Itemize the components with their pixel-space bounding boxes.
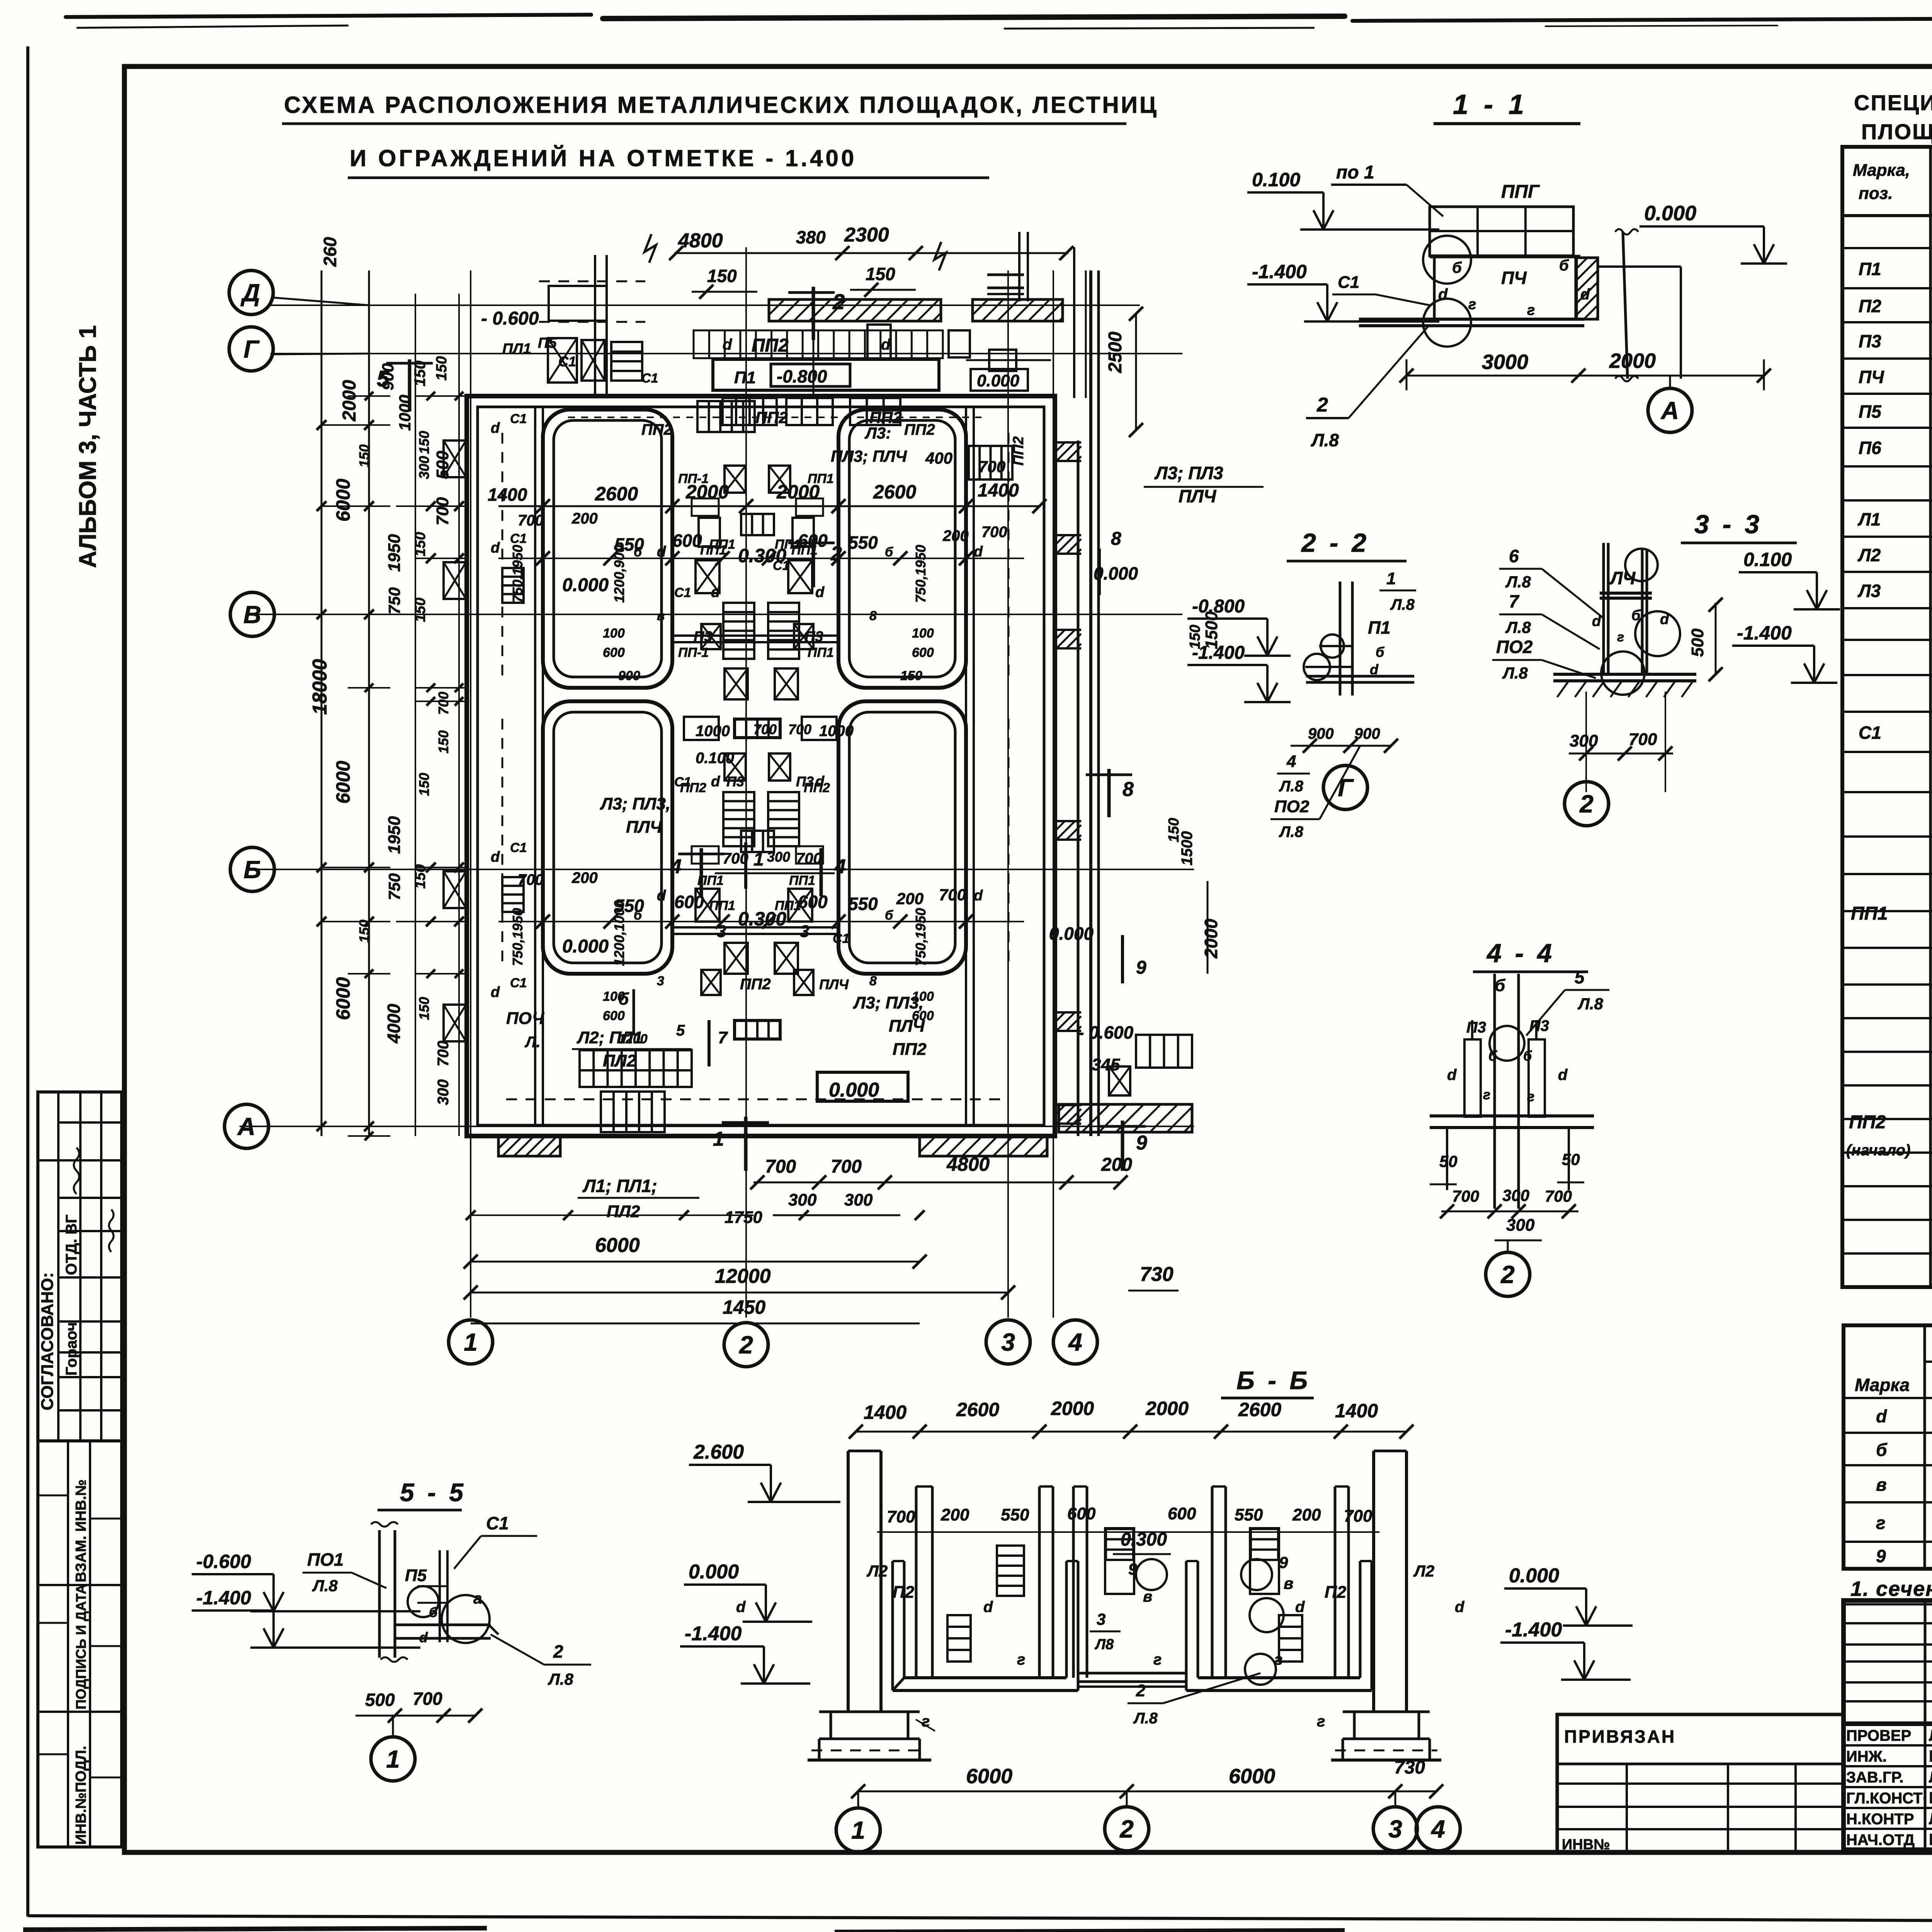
svg-text:ПП2: ПП2 (893, 1040, 927, 1059)
svg-text:700: 700 (1452, 1187, 1479, 1205)
spec row L2 (1857, 543, 1932, 570)
right 0.000 box (971, 369, 1028, 391)
axis circle D (229, 270, 273, 315)
spec row P6 (1859, 435, 1932, 462)
svg-text:4: 4 (1430, 1815, 1445, 1843)
bottom right railing boxes (1136, 1035, 1192, 1068)
svg-text:-1.400: -1.400 (685, 1622, 742, 1645)
svg-text:600: 600 (912, 1009, 934, 1023)
svg-text:Б - Б: Б - Б (1236, 1366, 1311, 1395)
svg-text:Л1; ПЛ1;: Л1; ПЛ1; (582, 1176, 657, 1196)
svg-text:0.100: 0.100 (1252, 169, 1300, 190)
svg-text:б: б (1376, 644, 1385, 660)
svg-text:ПРОВЕР: ПРОВЕР (1846, 1727, 1911, 1744)
svg-text:500: 500 (433, 451, 452, 479)
B-B tank U bottoms (904, 1676, 1066, 1679)
svg-text:П5: П5 (405, 1566, 427, 1585)
spec row P1 (1859, 259, 1932, 280)
svg-text:900: 900 (618, 668, 640, 683)
svg-text:750,1950: 750,1950 (913, 545, 929, 603)
svg-text:С1: С1 (674, 585, 691, 600)
svg-text:700: 700 (435, 692, 451, 715)
svg-text:2600: 2600 (956, 1399, 999, 1420)
svg-text:700: 700 (518, 871, 544, 888)
svg-text:в: в (1143, 1588, 1152, 1605)
outer sheet border left (26, 46, 29, 1917)
svg-text:550: 550 (848, 532, 878, 553)
svg-text:С1: С1 (1859, 723, 1881, 743)
svg-text:750: 750 (385, 873, 403, 900)
svg-text:С1: С1 (641, 371, 658, 386)
svg-text:в: в (1876, 1475, 1887, 1495)
svg-text:1 - 1: 1 - 1 (1453, 89, 1528, 120)
svg-text:2: 2 (1119, 1815, 1134, 1843)
svg-text:ПЛОЩАДОК, ЛЕСТНИЦ И ОГРАЖДЕН: ПЛОЩАДОК, ЛЕСТНИЦ И ОГРАЖДЕНИЙ (НАЧАЛО) (1861, 119, 1932, 144)
svg-text:750: 750 (385, 587, 403, 614)
svg-text:(начало): (начало) (1846, 1142, 1910, 1159)
plan: witness line extensions left (396, 505, 415, 507)
svg-text:730: 730 (1394, 1757, 1425, 1778)
svg-text:4: 4 (1068, 1328, 1082, 1356)
svg-text:ПП-1: ПП-1 (678, 471, 709, 486)
plan: vertical axis lines (470, 270, 471, 1318)
svg-text:3: 3 (1001, 1328, 1015, 1356)
svg-text:9: 9 (1876, 1546, 1886, 1566)
axis circle V (230, 592, 274, 636)
svg-text:б: б (429, 1604, 438, 1620)
svg-text:ПЛ2: ПЛ2 (603, 1051, 636, 1070)
svg-text:НАЧ.ОТД: НАЧ.ОТД (1846, 1832, 1915, 1849)
svg-text:700: 700 (433, 497, 452, 526)
svg-text:в: в (657, 609, 665, 623)
svg-text:С1: С1 (773, 558, 789, 573)
svg-text:50: 50 (1562, 1150, 1580, 1168)
section 3-3 axis circle 2 (1565, 782, 1609, 826)
section 1-1 dims (1406, 375, 1764, 377)
svg-text:6000: 6000 (966, 1765, 1012, 1788)
tank T3 (543, 701, 672, 974)
svg-text:Л.8: Л.8 (1279, 778, 1304, 795)
svg-text:300: 300 (1502, 1186, 1529, 1204)
svg-text:-1.400: -1.400 (1192, 643, 1245, 663)
svg-text:Л.8: Л.8 (1311, 430, 1339, 450)
B-B right footing (1343, 1711, 1430, 1713)
svg-text:ПЧ: ПЧ (1859, 367, 1884, 387)
plan: break marks top (645, 234, 656, 263)
svg-text:1: 1 (713, 1128, 724, 1150)
svg-text:б: б (1559, 257, 1569, 274)
svg-text:d: d (983, 1599, 993, 1616)
svg-text:Г: Г (1338, 774, 1354, 801)
svg-text:П1: П1 (734, 368, 756, 387)
svg-text:550: 550 (1001, 1505, 1029, 1524)
svg-text:150: 150 (412, 532, 429, 556)
svg-text:С1: С1 (510, 840, 527, 855)
svg-text:- 0.600: - 0.600 (1078, 1022, 1134, 1043)
axis circle G (229, 327, 273, 371)
svg-text:600: 600 (912, 645, 934, 660)
svg-text:г: г (1527, 302, 1535, 318)
svg-text:100: 100 (603, 989, 625, 1004)
spec table grid (1842, 147, 1932, 1287)
section 3-3 drawing (1602, 543, 1605, 674)
svg-text:2.600: 2.600 (693, 1441, 744, 1463)
svg-text:ПП1: ПП1 (775, 898, 801, 913)
svg-text:Л.8: Л.8 (1390, 596, 1415, 613)
svg-text:d: d (491, 420, 500, 436)
B-B central platform (1078, 1672, 1186, 1675)
svg-text:2000: 2000 (1145, 1398, 1189, 1419)
svg-text:2000: 2000 (339, 380, 360, 422)
svg-text:А: А (1660, 396, 1679, 424)
svg-text:9: 9 (1136, 957, 1146, 978)
svg-text:г: г (1274, 1651, 1282, 1668)
svg-text:8: 8 (869, 974, 877, 988)
svg-text:380: 380 (796, 227, 826, 247)
svg-text:С1: С1 (510, 976, 527, 990)
title block frame (1844, 1600, 1932, 1850)
svg-text:ПП1: ПП1 (775, 537, 801, 552)
svg-text:ЛЕВИНА: ЛЕВИНА (1929, 1810, 1932, 1828)
svg-text:П5: П5 (1859, 401, 1882, 422)
B-B small stairs left (997, 1546, 1024, 1596)
svg-text:б: б (885, 908, 893, 923)
axis circle A (224, 1104, 269, 1148)
svg-text:5 - 5: 5 - 5 (400, 1478, 466, 1507)
svg-text:2600: 2600 (1238, 1399, 1281, 1420)
plan axis circle 3 (986, 1320, 1030, 1364)
svg-text:d: d (711, 584, 720, 600)
svg-text:а: а (473, 1590, 482, 1607)
svg-text:d: d (1295, 1599, 1305, 1616)
svg-text:2000: 2000 (1201, 918, 1221, 959)
top hatched strips (769, 299, 941, 321)
svg-text:1400: 1400 (1335, 1400, 1378, 1422)
svg-text:Л2: Л2 (1413, 1562, 1434, 1580)
svg-text:3: 3 (800, 922, 809, 941)
svg-text:2: 2 (739, 1331, 753, 1359)
svg-text:2: 2 (1500, 1260, 1515, 1288)
svg-text:КАЛМЫКОВА: КАЛМЫКОВА (1929, 1747, 1932, 1765)
svg-text:г: г (1617, 630, 1624, 645)
svg-text:2: 2 (1579, 790, 1594, 818)
svg-text:700: 700 (413, 1689, 442, 1709)
B-B tank walls and columns (915, 1486, 918, 1678)
svg-text:0.000: 0.000 (1644, 202, 1696, 225)
svg-text:Л2: Л2 (1857, 545, 1881, 565)
svg-text:4: 4 (1286, 752, 1296, 771)
svg-text:-0.800: -0.800 (1192, 596, 1245, 617)
section marker 7 bottom (707, 1020, 711, 1066)
svg-text:3: 3 (657, 974, 664, 988)
svg-text:Л3; ПЛ3,: Л3; ПЛ3, (600, 794, 670, 813)
svg-text:1950: 1950 (385, 816, 404, 854)
svg-text:П1: П1 (1368, 617, 1391, 638)
svg-text:400: 400 (925, 449, 952, 467)
left margin upper table (approvals) (38, 1092, 122, 1441)
svg-text:6000: 6000 (332, 761, 354, 804)
svg-text:300: 300 (416, 456, 432, 479)
svg-text:АЛЬБОМ 3, ЧАСТЬ 1: АЛЬБОМ 3, ЧАСТЬ 1 (75, 325, 101, 568)
B-B axis circles (836, 1808, 880, 1852)
svg-text:1: 1 (386, 1745, 400, 1773)
svg-text:1200,900: 1200,900 (611, 545, 627, 603)
svg-text:d: d (1876, 1406, 1887, 1426)
plan axis circle 4 (1053, 1320, 1097, 1364)
svg-text:5: 5 (676, 1022, 685, 1039)
svg-text:СПЕЦИФИКАЦИЯ К СХЕМЕ РАСПОЛОЖЕ: СПЕЦИФИКАЦИЯ К СХЕМЕ РАСПОЛОЖЕНИЯ МЕТАЛЛ… (1854, 90, 1932, 115)
plan: top wall spur verticals (594, 255, 596, 398)
plan: top-right shaft (987, 274, 1024, 276)
svg-text:Л8: Л8 (1094, 1636, 1114, 1653)
svg-text:150: 150 (434, 356, 450, 381)
plan: top axis extension lines (470, 270, 471, 396)
svg-text:ПО1: ПО1 (307, 1549, 344, 1570)
spec row P3 (1859, 331, 1932, 352)
svg-text:d: d (723, 336, 733, 353)
svg-text:П2: П2 (893, 1583, 915, 1602)
plan: left margin tick grid (415, 505, 467, 507)
svg-text:150: 150 (416, 997, 432, 1020)
svg-text:г: г (1153, 1651, 1162, 1668)
plan center: mid stair cluster upper (696, 560, 719, 593)
section marker 4 left (700, 848, 703, 896)
svg-text:0.000: 0.000 (562, 936, 609, 957)
scan edge band bottom (23, 1928, 487, 1930)
svg-text:4800: 4800 (946, 1153, 990, 1175)
svg-text:d: d (657, 544, 666, 560)
B-B tank outer walls (903, 1561, 906, 1678)
svg-text:2600: 2600 (873, 481, 916, 503)
svg-text:d: d (491, 984, 500, 1000)
svg-text:600: 600 (603, 645, 625, 660)
5 marker top-left (408, 359, 412, 412)
svg-text:150: 150 (412, 598, 429, 622)
svg-text:3: 3 (1097, 1610, 1105, 1628)
left wall stair details (502, 568, 524, 603)
svg-text:П5: П5 (538, 335, 557, 351)
svg-text:3000: 3000 (1482, 350, 1528, 374)
svg-text:0.100: 0.100 (1743, 549, 1792, 570)
svg-text:6000: 6000 (595, 1234, 640, 1257)
svg-text:-1.400: -1.400 (1737, 622, 1792, 644)
bottom-left big staircase (580, 1050, 692, 1087)
plan axis circle 2 (724, 1323, 768, 1367)
svg-text:ПЧ: ПЧ (1501, 268, 1527, 288)
spec row P2 (1859, 296, 1932, 317)
svg-text:300: 300 (1506, 1216, 1535, 1235)
right wall hatch stubs (1055, 442, 1081, 461)
svg-text:Л.8: Л.8 (548, 1670, 574, 1688)
svg-text:3: 3 (1388, 1815, 1402, 1843)
svg-text:150: 150 (707, 266, 737, 286)
svg-text:б: б (634, 908, 642, 923)
svg-text:ПП2: ПП2 (804, 781, 830, 795)
svg-text:ПРОНИН: ПРОНИН (1929, 1789, 1932, 1807)
svg-text:ПП2: ПП2 (1010, 436, 1027, 466)
svg-text:1750: 1750 (724, 1208, 762, 1227)
section 3-3 levels (1739, 549, 1840, 609)
svg-text:d: d (974, 888, 983, 904)
axis circle B (230, 847, 274, 891)
left margin lower table (inv no) (38, 1441, 122, 1847)
svg-text:d: d (1370, 662, 1379, 677)
B-B left footing (819, 1711, 920, 1713)
svg-text:d: d (815, 584, 825, 600)
svg-text:3 - 3: 3 - 3 (1694, 510, 1762, 539)
svg-text:d: d (711, 774, 720, 790)
svg-text:ПЛ2: ПЛ2 (607, 1202, 640, 1221)
outer sheet border bottom (28, 1916, 1723, 1920)
svg-text:150: 150 (435, 730, 451, 753)
plan: long horizontal dim line mid (498, 558, 1024, 559)
central stairs (723, 603, 754, 659)
svg-text:7: 7 (1509, 591, 1520, 611)
svg-text:Н.КОНТР: Н.КОНТР (1846, 1811, 1914, 1828)
svg-text:ПП1: ПП1 (789, 873, 815, 888)
svg-text:1000: 1000 (819, 723, 854, 740)
svg-text:1: 1 (1386, 569, 1396, 588)
svg-text:Гораоч: Гораоч (63, 1322, 80, 1376)
B-B right column (1372, 1451, 1375, 1712)
svg-text:4000: 4000 (384, 1003, 404, 1044)
svg-text:18000: 18000 (309, 659, 331, 715)
svg-text:d: d (1447, 1066, 1457, 1083)
svg-text:по 1: по 1 (1336, 162, 1374, 183)
svg-text:Д: Д (240, 279, 260, 306)
svg-text:ПП1: ПП1 (1851, 903, 1888, 924)
svg-text:d: d (657, 888, 666, 904)
svg-text:750,1950: 750,1950 (510, 545, 526, 603)
svg-text:700: 700 (765, 1156, 796, 1177)
B-B levels (689, 1441, 840, 1502)
svg-text:б: б (1876, 1440, 1888, 1460)
railing boxes below platform (723, 398, 777, 425)
svg-text:0.000: 0.000 (562, 575, 609, 595)
svg-text:600: 600 (674, 892, 704, 912)
left side dim columns (321, 270, 323, 1136)
svg-text:d: d (1660, 611, 1669, 628)
svg-text:1450: 1450 (723, 1296, 765, 1318)
svg-text:- 0.600: - 0.600 (481, 308, 539, 329)
scan edge band top (66, 15, 1932, 29)
svg-text:150: 150 (356, 444, 372, 468)
svg-text:Марка,: Марка, (1853, 161, 1910, 180)
svg-text:200: 200 (896, 889, 923, 908)
svg-text:ПОДПИСЬ И ДАТА: ПОДПИСЬ И ДАТА (73, 1584, 89, 1709)
svg-text:Л.8: Л.8 (1505, 618, 1531, 636)
svg-text:2300: 2300 (844, 224, 889, 246)
svg-text:100: 100 (912, 989, 934, 1004)
section 2-2 dims (1291, 745, 1391, 747)
svg-text:С1: С1 (1338, 273, 1359, 292)
svg-text:ПП1: ПП1 (709, 898, 735, 913)
svg-text:600: 600 (798, 531, 828, 551)
svg-text:600: 600 (672, 531, 702, 551)
svg-text:ПП2: ПП2 (1849, 1112, 1886, 1133)
svg-text:d: d (1580, 286, 1590, 303)
svg-text:9: 9 (1279, 1553, 1288, 1571)
svg-text:СОГЛАСОВАНО:: СОГЛАСОВАНО: (38, 1272, 57, 1410)
svg-text:ГЛ.КОНСТ·: ГЛ.КОНСТ· (1846, 1790, 1928, 1807)
svg-text:0.000: 0.000 (1094, 563, 1138, 583)
svg-text:2: 2 (1316, 394, 1328, 416)
svg-text:300: 300 (435, 1079, 452, 1105)
svg-text:2: 2 (553, 1641, 563, 1662)
svg-text:П2: П2 (1325, 1583, 1347, 1602)
svg-text:ПЛ1: ПЛ1 (502, 341, 531, 357)
svg-text:ПЛ3; ПЛЧ: ПЛ3; ПЛЧ (831, 447, 907, 465)
left wall boxes (444, 440, 466, 477)
svg-text:4: 4 (670, 855, 682, 878)
svg-text:ИНВ№: ИНВ№ (1562, 1837, 1610, 1853)
svg-text:-1.400: -1.400 (1252, 261, 1307, 282)
svg-text:ПП1: ПП1 (808, 471, 834, 486)
plan axis circle 1 (449, 1320, 493, 1364)
section 2-2 axis circle G (1323, 765, 1367, 810)
plan: dashed railing lines along walls (502, 433, 503, 680)
svg-text:200: 200 (571, 869, 598, 886)
svg-text:200: 200 (942, 527, 969, 544)
small boxes top (867, 325, 891, 359)
svg-text:ПЛЧ: ПЛЧ (1179, 486, 1217, 506)
plan: top-right stair (969, 446, 1012, 480)
svg-text:Л.8: Л.8 (1577, 995, 1604, 1013)
svg-text:5: 5 (1575, 967, 1585, 987)
svg-text:1400: 1400 (488, 485, 527, 505)
svg-text:С1: С1 (510, 531, 527, 546)
svg-text:Л.8: Л.8 (312, 1577, 338, 1595)
svg-text:300: 300 (844, 1190, 873, 1209)
svg-text:б: б (885, 545, 893, 560)
svg-text:ПИСЬМАН: ПИСЬМАН (1929, 1830, 1932, 1849)
svg-text:Л3; ПЛ3: Л3; ПЛ3 (1154, 463, 1223, 483)
plan: right outer wall line (1077, 440, 1080, 1136)
svg-text:г: г (1527, 1088, 1534, 1104)
section marker 1 bottom (744, 1117, 748, 1171)
svg-text:СХЕМА РАСПОЛОЖЕНИЯ МЕТАЛЛИЧЕСК: СХЕМА РАСПОЛОЖЕНИЯ МЕТАЛЛИЧЕСКИХ ПЛОЩАДО… (284, 92, 1158, 118)
svg-text:П2: П2 (1859, 296, 1881, 316)
svg-text:550: 550 (848, 894, 878, 914)
svg-text:Л1: Л1 (1857, 509, 1881, 529)
spec row L3 (1857, 578, 1932, 605)
svg-text:ЛЕВИНА: ЛЕВИНА (1929, 1726, 1932, 1744)
svg-text:700: 700 (978, 457, 1005, 476)
svg-text:900: 900 (1308, 725, 1334, 742)
svg-text:В: В (243, 600, 261, 628)
svg-text:г: г (1468, 296, 1476, 313)
svg-text:ПП2: ПП2 (641, 421, 672, 438)
svg-text:6000: 6000 (332, 479, 354, 522)
svg-text:1400: 1400 (864, 1401, 906, 1423)
section 3-3 dims (1569, 753, 1673, 755)
svg-text:П3: П3 (1529, 1017, 1549, 1034)
svg-text:Л.8: Л.8 (1133, 1710, 1158, 1727)
plan: corridor extra clutter (724, 466, 746, 493)
svg-text:4 - 4: 4 - 4 (1486, 939, 1555, 968)
svg-text:А: А (237, 1112, 255, 1140)
svg-text:2: 2 (1136, 1681, 1146, 1700)
svg-text:ПП1: ПП1 (808, 645, 834, 660)
section 5-5 drawing (378, 1530, 381, 1658)
svg-text:600: 600 (1168, 1504, 1196, 1523)
svg-text:ПОЧ: ПОЧ (506, 1009, 544, 1028)
bottom right hatched platform (1059, 1104, 1192, 1132)
svg-text:в: в (1284, 1574, 1293, 1592)
svg-text:6000: 6000 (1229, 1765, 1275, 1788)
svg-text:0.000: 0.000 (977, 371, 1020, 390)
svg-text:Л.8: Л.8 (1502, 664, 1528, 682)
